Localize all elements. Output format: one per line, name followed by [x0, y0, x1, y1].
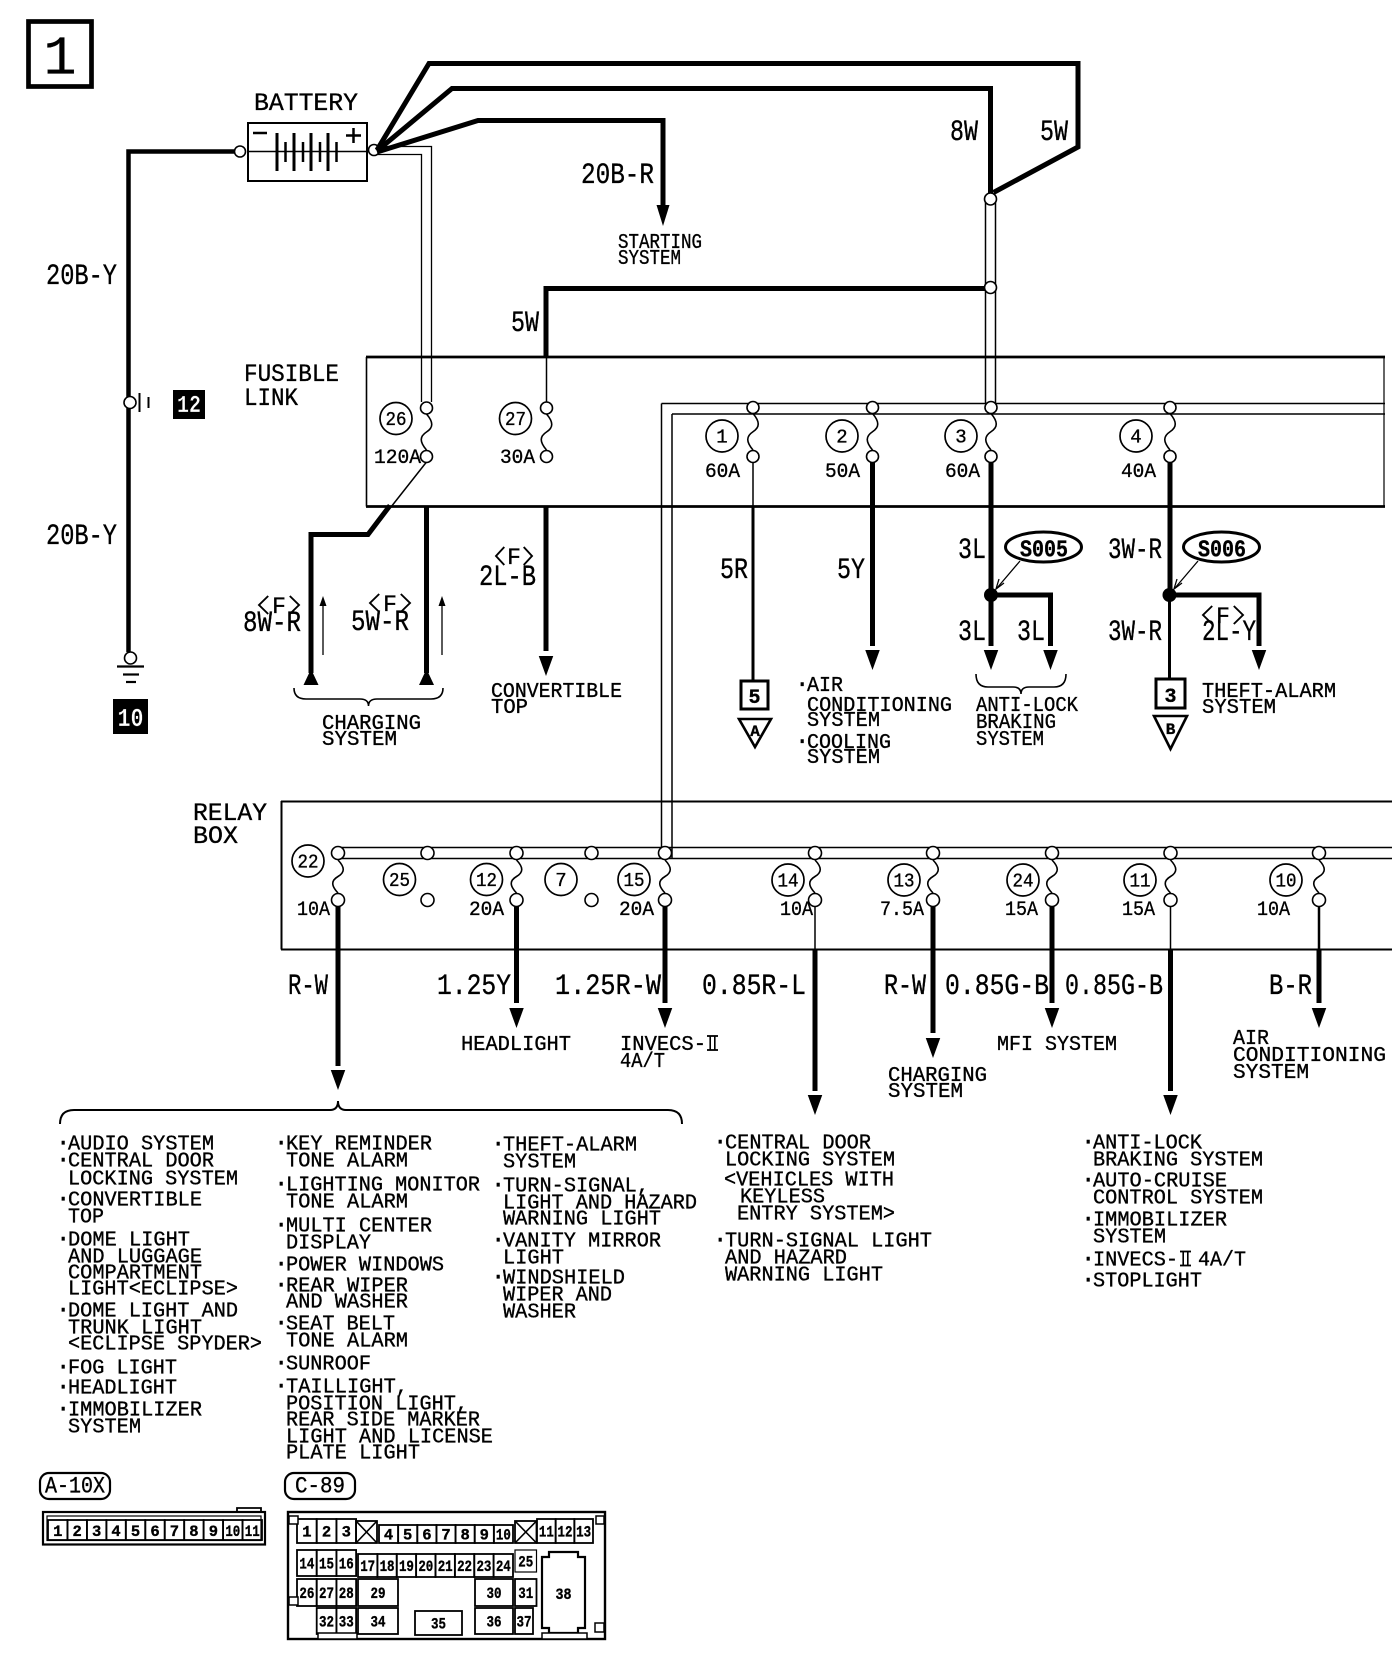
svg-text:5W: 5W	[511, 307, 539, 341]
svg-text:28: 28	[339, 1585, 354, 1603]
svg-text:15: 15	[319, 1556, 334, 1574]
svg-text:10: 10	[496, 1527, 511, 1545]
svg-text:SYSTEM: SYSTEM	[1233, 1062, 1309, 1085]
svg-text:LOCKING SYSTEM: LOCKING SYSTEM	[68, 1169, 238, 1192]
svg-text:19: 19	[399, 1558, 414, 1576]
svg-text:WARNING LIGHT: WARNING LIGHT	[725, 1265, 883, 1288]
svg-text:20: 20	[418, 1558, 433, 1576]
svg-text:BRAKING SYSTEM: BRAKING SYSTEM	[1093, 1150, 1263, 1173]
svg-text:CONTROL SYSTEM: CONTROL SYSTEM	[1093, 1188, 1263, 1211]
svg-text:SYSTEM: SYSTEM	[618, 248, 681, 271]
svg-text:26: 26	[386, 409, 407, 431]
svg-text:34: 34	[371, 1614, 386, 1632]
svg-text:23: 23	[476, 1558, 491, 1576]
svg-text:1: 1	[43, 28, 76, 91]
svg-text:ENTRY SYSTEM>: ENTRY SYSTEM>	[737, 1204, 895, 1227]
svg-text:SYSTEM: SYSTEM	[976, 729, 1044, 752]
svg-text:32: 32	[319, 1614, 334, 1632]
svg-text:24: 24	[496, 1558, 511, 1576]
svg-text:25: 25	[518, 1554, 533, 1572]
svg-text:5: 5	[748, 687, 760, 710]
svg-text:B: B	[1166, 721, 1176, 739]
svg-text:WASHER: WASHER	[503, 1302, 576, 1325]
svg-text:21: 21	[438, 1558, 453, 1576]
svg-text:25: 25	[389, 870, 410, 892]
svg-text:3W-R: 3W-R	[1108, 616, 1162, 650]
svg-text:AND WASHER: AND WASHER	[286, 1292, 408, 1315]
svg-text:4A/T: 4A/T	[1198, 1250, 1246, 1273]
svg-text:31: 31	[518, 1585, 533, 1603]
svg-text:11: 11	[1130, 871, 1151, 893]
svg-text:DISPLAY: DISPLAY	[286, 1233, 371, 1256]
svg-text:2L-Y: 2L-Y	[1202, 616, 1256, 650]
svg-text:R-W: R-W	[884, 970, 926, 1004]
svg-text:3W-R: 3W-R	[1108, 534, 1162, 568]
svg-text:3: 3	[1164, 686, 1176, 709]
svg-text:60A: 60A	[705, 461, 740, 484]
svg-text:A: A	[750, 723, 760, 741]
svg-text:20A: 20A	[469, 899, 504, 922]
svg-text:6: 6	[422, 1527, 431, 1545]
svg-text:SYSTEM: SYSTEM	[503, 1152, 576, 1175]
svg-text:STOPLIGHT: STOPLIGHT	[1093, 1271, 1202, 1294]
svg-text:5: 5	[403, 1527, 412, 1545]
svg-text:1: 1	[302, 1524, 311, 1542]
svg-text:8: 8	[460, 1527, 469, 1545]
svg-text:3: 3	[342, 1524, 351, 1542]
svg-text:SYSTEM: SYSTEM	[68, 1417, 141, 1440]
svg-text:4: 4	[384, 1527, 393, 1545]
svg-text:R-W: R-W	[288, 970, 328, 1004]
svg-text:26: 26	[299, 1585, 314, 1603]
svg-text:15: 15	[624, 870, 645, 892]
svg-text:20B-R: 20B-R	[581, 159, 654, 193]
svg-text:TOP: TOP	[491, 697, 528, 720]
svg-text:18: 18	[380, 1558, 395, 1576]
svg-text:BATTERY: BATTERY	[254, 89, 358, 118]
svg-text:2: 2	[836, 427, 847, 449]
svg-text:TONE ALARM: TONE ALARM	[286, 1331, 408, 1354]
svg-text:HEADLIGHT: HEADLIGHT	[68, 1378, 177, 1401]
svg-text:12: 12	[476, 870, 497, 892]
svg-text:5R: 5R	[720, 554, 748, 588]
svg-text:S005: S005	[1020, 538, 1068, 565]
svg-text:8W: 8W	[950, 116, 978, 150]
svg-text:LIGHT<ECLIPSE>: LIGHT<ECLIPSE>	[68, 1279, 238, 1302]
svg-text:5W-R: 5W-R	[351, 606, 409, 640]
svg-text:38: 38	[556, 1586, 572, 1604]
svg-text:7: 7	[441, 1527, 450, 1545]
svg-text:SYSTEM: SYSTEM	[888, 1081, 963, 1104]
svg-text:5: 5	[131, 1523, 140, 1541]
svg-text:2: 2	[73, 1523, 82, 1541]
svg-text:SYSTEM: SYSTEM	[1202, 697, 1276, 720]
svg-text:2L-B: 2L-B	[479, 561, 536, 595]
svg-text:4: 4	[1130, 427, 1141, 449]
svg-text:3L: 3L	[1017, 616, 1045, 650]
svg-text:SYSTEM: SYSTEM	[1093, 1227, 1166, 1250]
svg-text:22: 22	[298, 852, 319, 874]
svg-text:40A: 40A	[1121, 461, 1156, 484]
svg-text:10: 10	[118, 704, 144, 734]
svg-text:8: 8	[189, 1523, 198, 1541]
svg-text:33: 33	[339, 1614, 354, 1632]
svg-text:0.85G-B: 0.85G-B	[945, 970, 1049, 1004]
svg-text:11: 11	[245, 1523, 260, 1541]
svg-text:POWER WINDOWS: POWER WINDOWS	[286, 1255, 444, 1278]
svg-text:SYSTEM: SYSTEM	[322, 729, 397, 752]
svg-text:30A: 30A	[500, 447, 535, 470]
svg-text:3: 3	[955, 427, 966, 449]
svg-text:24: 24	[1013, 871, 1034, 893]
svg-text:10: 10	[225, 1523, 240, 1541]
svg-text:3: 3	[92, 1523, 101, 1541]
svg-text:TONE ALARM: TONE ALARM	[286, 1151, 408, 1174]
svg-text:13: 13	[576, 1524, 591, 1542]
svg-text:13: 13	[894, 871, 915, 893]
svg-text:BOX: BOX	[193, 822, 238, 851]
svg-text:1.25Y: 1.25Y	[437, 970, 511, 1004]
svg-text:7: 7	[555, 870, 566, 892]
svg-text:16: 16	[339, 1556, 354, 1574]
svg-text:8W-R: 8W-R	[243, 607, 301, 641]
svg-text:17: 17	[360, 1558, 375, 1576]
svg-text:1: 1	[716, 427, 727, 449]
svg-text:TOP: TOP	[68, 1207, 104, 1230]
svg-text:SUNROOF: SUNROOF	[286, 1354, 371, 1377]
svg-text:C-89: C-89	[295, 1474, 345, 1500]
svg-text:10: 10	[1276, 871, 1297, 893]
svg-text:5W: 5W	[1040, 116, 1068, 150]
svg-text:3L: 3L	[958, 616, 986, 650]
svg-text:HEADLIGHT: HEADLIGHT	[461, 1034, 571, 1057]
svg-text:1: 1	[53, 1523, 62, 1541]
svg-text:10A: 10A	[1257, 899, 1290, 922]
svg-text:3L: 3L	[958, 534, 986, 568]
svg-text:4A/T: 4A/T	[620, 1051, 665, 1074]
svg-text:S006: S006	[1198, 538, 1246, 565]
svg-text:9: 9	[209, 1523, 218, 1541]
svg-text:5Y: 5Y	[837, 554, 865, 588]
svg-text:20A: 20A	[619, 899, 654, 922]
svg-text:120A: 120A	[374, 447, 421, 470]
svg-text:7.5A: 7.5A	[880, 899, 924, 922]
svg-text:12: 12	[177, 393, 201, 420]
svg-text:10A: 10A	[780, 899, 813, 922]
svg-text:0.85G-B: 0.85G-B	[1065, 970, 1163, 1004]
svg-text:A-10X: A-10X	[45, 1474, 105, 1500]
svg-text:PLATE LIGHT: PLATE LIGHT	[286, 1443, 420, 1466]
svg-text:TONE ALARM: TONE ALARM	[286, 1192, 408, 1215]
svg-text:2: 2	[322, 1524, 331, 1542]
svg-text:37: 37	[517, 1614, 532, 1632]
svg-text:9: 9	[480, 1527, 489, 1545]
svg-text:20B-Y: 20B-Y	[46, 260, 117, 294]
svg-text:SYSTEM: SYSTEM	[807, 747, 880, 770]
svg-text:4: 4	[111, 1523, 120, 1541]
svg-text:7: 7	[170, 1523, 179, 1541]
svg-text:35: 35	[431, 1616, 446, 1634]
svg-text:INVECS-: INVECS-	[1093, 1250, 1178, 1273]
svg-text:1.25R-W: 1.25R-W	[555, 970, 661, 1004]
svg-text:11: 11	[539, 1524, 554, 1542]
svg-text:MFI SYSTEM: MFI SYSTEM	[997, 1034, 1117, 1057]
svg-text:14: 14	[299, 1556, 314, 1574]
svg-text:14: 14	[778, 871, 799, 893]
svg-text:29: 29	[371, 1585, 386, 1603]
svg-text:36: 36	[487, 1614, 502, 1632]
svg-text:30: 30	[487, 1585, 502, 1603]
svg-text:WARNING LIGHT: WARNING LIGHT	[503, 1209, 661, 1232]
svg-text:12: 12	[558, 1524, 573, 1542]
svg-text:15A: 15A	[1122, 899, 1155, 922]
svg-text:LINK: LINK	[244, 384, 298, 413]
svg-text:<ECLIPSE SPYDER>: <ECLIPSE SPYDER>	[68, 1334, 262, 1357]
svg-text:B-R: B-R	[1269, 970, 1312, 1004]
svg-text:22: 22	[457, 1558, 472, 1576]
svg-text:60A: 60A	[945, 461, 980, 484]
svg-text:15A: 15A	[1005, 899, 1038, 922]
svg-text:20B-Y: 20B-Y	[46, 520, 117, 554]
svg-text:0.85R-L: 0.85R-L	[702, 970, 806, 1004]
svg-text:6: 6	[150, 1523, 159, 1541]
svg-text:10A: 10A	[297, 899, 330, 922]
svg-text:SYSTEM: SYSTEM	[807, 710, 880, 733]
svg-text:50A: 50A	[825, 461, 860, 484]
svg-text:27: 27	[505, 409, 526, 431]
svg-text:27: 27	[319, 1585, 334, 1603]
